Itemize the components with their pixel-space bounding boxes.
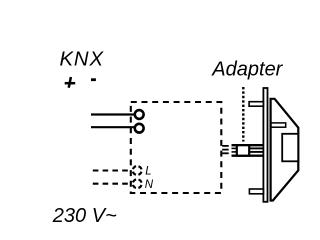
device dashed box [131,102,222,193]
plug pin 2 [222,149,229,151]
plug bottom bar [232,155,264,157]
terminal circle N (dashed) [133,179,142,188]
wire N (dashed) [93,183,131,185]
plug top bar [232,144,264,146]
adapter body outline [271,99,299,201]
adapter socket recess [282,134,298,162]
terminal circle KNX - [135,124,144,133]
plug body [237,145,249,156]
adapter top mounting tab [249,102,263,107]
svg-text:L: L [145,166,151,178]
plug pin 3 [222,152,229,154]
plug rib left lower [232,151,237,153]
label + (KNX plus terminal) [65,77,76,88]
plug rib right upper [249,147,263,149]
plug rib right lower [249,151,263,153]
terminal circle KNX + [135,110,144,119]
wire KNX - [91,126,134,128]
svg-text:N: N [145,179,154,191]
adapter inner tab [271,123,286,127]
terminal circle L (dashed) [133,166,142,175]
dotted leader line from Adapter label [242,87,244,142]
adapter wall plate [263,88,267,202]
svg-text:230 V~: 230 V~ [52,205,117,227]
plug pin 1 [222,145,229,147]
svg-text:KNX: KNX [60,49,105,71]
wire KNX + [91,113,134,115]
wire L (dashed) [93,169,131,171]
label - (KNX minus terminal) [91,78,96,81]
svg-text:Adapter: Adapter [211,59,283,81]
adapter bottom mounting tab [249,189,263,194]
plug rib left upper [232,147,237,149]
